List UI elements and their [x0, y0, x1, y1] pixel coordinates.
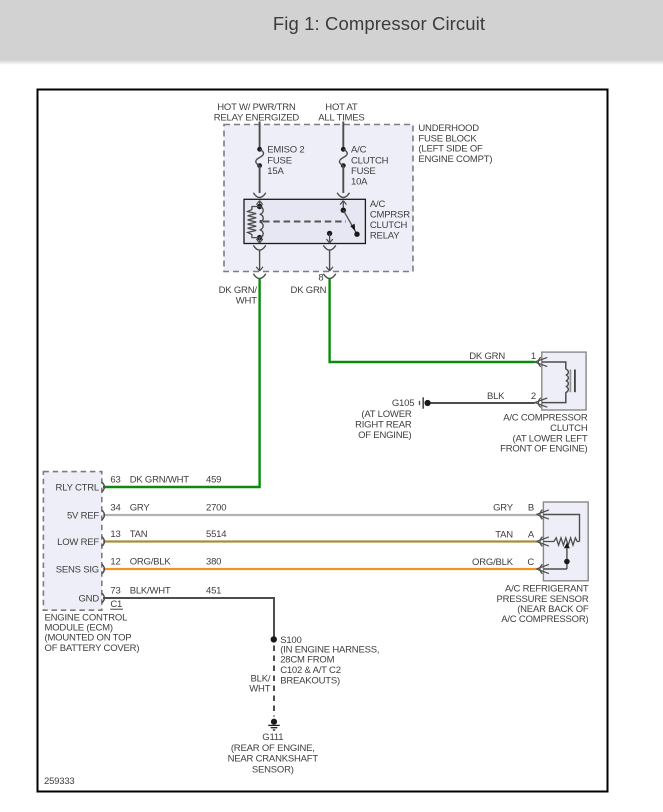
svg-text:EMISO 2: EMISO 2	[267, 145, 304, 156]
svg-text:CMPRSR: CMPRSR	[370, 209, 410, 220]
svg-text:FUSE: FUSE	[267, 155, 292, 166]
svg-text:GRY: GRY	[493, 502, 514, 513]
wire fuse1 to relay coil	[259, 166, 261, 193]
svg-text:28CM FROM: 28CM FROM	[280, 655, 334, 666]
svg-text:HOT W/ PWR/TRN: HOT W/ PWR/TRN	[217, 102, 296, 113]
svg-text:380: 380	[206, 556, 221, 567]
ECM pin cup RLY CTRL	[102, 482, 104, 492]
svg-text:CLUTCH: CLUTCH	[351, 155, 389, 166]
ECM pin numbers	[110, 474, 120, 596]
wire BLK/WHT 451 (ECM GND to S100)	[103, 598, 274, 637]
ground G111 symbol	[268, 719, 279, 730]
svg-text:5514: 5514	[206, 529, 226, 540]
label DK GRN/ WHT	[219, 285, 258, 307]
label G105 (AT LOWER RIGHT REAR OF ENGINE)	[355, 398, 414, 441]
ECM pin cup LOW REF	[102, 537, 104, 547]
clutch coil	[542, 362, 575, 403]
svg-text:ALL TIMES: ALL TIMES	[318, 113, 364, 124]
svg-text:TAN: TAN	[495, 530, 513, 541]
svg-text:73: 73	[110, 585, 120, 596]
wire fuse2 to relay switch	[342, 166, 344, 193]
svg-text:SENS SIG: SENS SIG	[56, 564, 99, 575]
label UNDERHOOD FUSE BLOCK	[418, 123, 492, 165]
sensor internal C wire	[543, 568, 567, 570]
svg-text:63: 63	[110, 474, 120, 485]
svg-text:12: 12	[110, 556, 120, 567]
relay coil	[248, 204, 264, 241]
svg-text:13: 13	[110, 529, 120, 540]
svg-text:15A: 15A	[267, 166, 284, 177]
svg-text:ENGINE COMPT): ENGINE COMPT)	[418, 154, 492, 165]
connector cup at relay top pin (switch)	[337, 193, 349, 198]
sensor internal B wire	[543, 515, 579, 542]
label HOT AT ALL TIMES	[318, 102, 364, 124]
connector C1 label	[110, 599, 123, 610]
svg-text:LOW REF: LOW REF	[57, 537, 99, 548]
label EMISO 2 FUSE 15A	[267, 145, 304, 177]
ECM (dashed box)	[43, 472, 101, 611]
underhood fuse block (dashed box)	[224, 125, 413, 272]
wire DK GRN 8 (relay to clutch pin 1)	[330, 279, 535, 363]
label S100 (IN ENGINE HARNESS, 28CM FROM C102 & A/T C2 BREAKOUTS)	[280, 635, 379, 687]
wire feed 2 (B+ to A/C CLUTCH fuse)	[342, 122, 344, 150]
label A/C REFRIGERANT PRESSURE SENSOR	[496, 584, 588, 625]
A/C compressor clutch box	[542, 352, 586, 410]
relay switch	[326, 201, 359, 243]
svg-text:RIGHT REAR: RIGHT REAR	[355, 420, 412, 431]
svg-text:A/C COMPRESSOR: A/C COMPRESSOR	[503, 412, 588, 423]
svg-text:CLUTCH: CLUTCH	[550, 423, 588, 434]
svg-text:1: 1	[531, 351, 536, 362]
svg-text:2: 2	[531, 391, 536, 402]
ECM pin names	[56, 482, 100, 604]
wire coil out to fuse block edge	[256, 250, 263, 271]
svg-text:259333: 259333	[44, 776, 75, 787]
sensor wiper arrow	[564, 543, 570, 569]
svg-text:DK GRN/WHT: DK GRN/WHT	[130, 474, 190, 485]
svg-text:FRONT OF ENGINE): FRONT OF ENGINE)	[500, 444, 587, 455]
label G111 (REAR OF ENGINE, NEAR CRANKSHAFT SENSOR)	[228, 732, 319, 776]
svg-text:Fig 1: Compressor Circuit: Fig 1: Compressor Circuit	[273, 13, 485, 34]
svg-text:A/C: A/C	[351, 145, 367, 156]
wire BLK/WHT dashed (S100 to G111)	[273, 646, 275, 717]
svg-text:DK GRN/: DK GRN/	[219, 285, 258, 296]
sensor pin C connector	[536, 564, 549, 574]
relay coil bottom pin arrow to box edge	[256, 238, 262, 243]
sensor pin letters B A C	[527, 502, 535, 567]
svg-text:CLUTCH: CLUTCH	[370, 220, 408, 231]
svg-text:A: A	[528, 530, 535, 541]
svg-text:TAN: TAN	[130, 529, 148, 540]
relay U1 A/C CMPRSR CLUTCH RELAY box	[244, 199, 365, 243]
connector cup below relay (coil out)	[253, 245, 265, 250]
label HOT W/ PWR/TRN RELAY ENERGIZED	[214, 102, 300, 124]
clutch pin 1 connector	[535, 357, 548, 367]
svg-text:WHT: WHT	[249, 684, 270, 695]
svg-text:SENSOR): SENSOR)	[252, 764, 294, 775]
splice S100	[271, 636, 277, 642]
relay coil-to-switch dashed link	[259, 220, 346, 223]
svg-text:G111: G111	[262, 732, 283, 743]
header title bar	[0, 0, 663, 60]
svg-text:DK GRN: DK GRN	[291, 285, 327, 296]
svg-text:RLY CTRL: RLY CTRL	[56, 482, 99, 493]
svg-text:5V REF: 5V REF	[67, 510, 99, 521]
svg-text:(REAR OF ENGINE,: (REAR OF ENGINE,	[231, 743, 315, 754]
label A/C CMPRSR CLUTCH RELAY	[370, 199, 410, 242]
svg-text:A/C COMPRESSOR): A/C COMPRESSOR)	[501, 614, 588, 625]
wire GRY 2700	[103, 514, 536, 516]
svg-text:GRY: GRY	[130, 502, 151, 513]
label BLK/ WHT	[249, 674, 271, 695]
A/C refrigerant pressure sensor box	[543, 502, 588, 581]
svg-text:ORG/BLK: ORG/BLK	[472, 557, 514, 568]
relay coil pin entry arrow	[256, 201, 262, 207]
ECM pin cup 5V REF	[102, 510, 104, 520]
svg-text:459: 459	[206, 474, 221, 485]
svg-text:C102 & A/T C2: C102 & A/T C2	[280, 665, 341, 676]
svg-text:NEAR CRANKSHAFT: NEAR CRANKSHAFT	[228, 753, 319, 764]
svg-text:A/C: A/C	[370, 199, 386, 210]
svg-text:BREAKOUTS): BREAKOUTS)	[280, 676, 340, 687]
label ENGINE CONTROL MODULE (ECM)	[45, 612, 140, 654]
svg-text:RELAY ENERGIZED: RELAY ENERGIZED	[214, 113, 300, 124]
svg-text:OF ENGINE): OF ENGINE)	[358, 430, 411, 441]
clutch pin 2 connector	[535, 398, 548, 408]
svg-text:HOT AT: HOT AT	[325, 102, 358, 113]
svg-text:10A: 10A	[351, 177, 368, 188]
fuse A/C CLUTCH 10A	[339, 147, 347, 168]
svg-text:34: 34	[110, 502, 120, 513]
sensor potentiometer resistor	[543, 538, 579, 545]
wire switch out to fuse block edge	[326, 250, 333, 271]
wire colour labels	[130, 474, 190, 596]
ground G105	[420, 397, 431, 408]
connector cup at relay top pin (coil)	[253, 193, 265, 198]
svg-text:ORG/BLK: ORG/BLK	[130, 556, 172, 567]
svg-text:B: B	[528, 502, 534, 513]
svg-text:BLK/WHT: BLK/WHT	[130, 585, 171, 596]
svg-text:C1: C1	[110, 599, 122, 610]
diagram border frame	[38, 90, 608, 792]
svg-text:RELAY: RELAY	[370, 230, 400, 241]
fuse EMISO 2 15A	[256, 147, 264, 168]
sensor wire labels GRY TAN ORG/BLK	[472, 502, 514, 567]
svg-text:OF BATTERY COVER): OF BATTERY COVER)	[45, 643, 140, 654]
svg-text:2700: 2700	[206, 502, 226, 513]
connector cup below fuse block (switch out)	[323, 274, 335, 279]
connector cup below fuse block (coil out)	[253, 274, 265, 279]
wire feed 1 (B+ to EMISO 2 fuse)	[259, 122, 261, 150]
sensor pin B connector	[536, 510, 549, 520]
circuit numbers	[206, 474, 226, 596]
sensor pin A connector	[536, 537, 549, 547]
wire BLK (G105 to clutch pin 2)	[431, 402, 535, 404]
label A/C COMPRESSOR CLUTCH	[500, 412, 588, 454]
svg-text:FUSE: FUSE	[351, 166, 376, 177]
wire DK GRN/WHT 459 (relay to ECM RLY CTRL)	[103, 279, 260, 488]
svg-text:DK GRN: DK GRN	[469, 351, 505, 362]
svg-text:BLK: BLK	[487, 391, 505, 402]
ECM pin cup GND	[102, 593, 104, 603]
wire ORG/BLK 380	[103, 568, 536, 570]
label A/C CLUTCH FUSE 10A	[351, 145, 389, 188]
svg-text:8: 8	[318, 273, 323, 284]
ECM pin cup SENS SIG	[102, 564, 104, 574]
svg-text:(IN ENGINE HARNESS,: (IN ENGINE HARNESS,	[280, 644, 379, 655]
svg-text:C: C	[527, 557, 534, 568]
svg-text:G105: G105	[392, 398, 414, 409]
svg-text:GND: GND	[78, 593, 99, 604]
wire TAN 5514	[103, 540, 536, 542]
svg-text:451: 451	[206, 585, 221, 596]
svg-text:WHT: WHT	[236, 295, 257, 306]
svg-text:(AT LOWER: (AT LOWER	[361, 409, 411, 420]
connector cup below relay (switch out)	[323, 245, 335, 250]
